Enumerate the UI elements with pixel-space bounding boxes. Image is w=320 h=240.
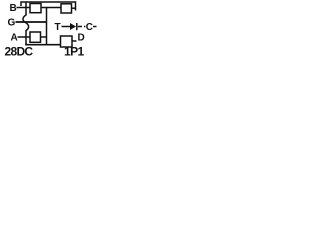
diode D1 (70, 23, 76, 30)
bottom bus wire (26, 44, 61, 45)
wire box4 to D (72, 40, 77, 42)
wire G to vertical junction (16, 21, 48, 23)
svg-text:D: D (78, 33, 85, 44)
wire after C (93, 26, 97, 28)
svg-text:T: T (55, 22, 61, 33)
wire A to box3 (18, 36, 31, 38)
svg-text:A: A (11, 33, 18, 44)
wire diode to C (78, 26, 82, 28)
svg-text:28DC: 28DC (5, 44, 34, 58)
top bus wire (21, 2, 76, 11)
box component (top-left square) (30, 4, 41, 13)
wire box1 to box2 (41, 7, 61, 9)
wire box3 to junction (41, 36, 48, 38)
svg-text:1P1: 1P1 (64, 44, 84, 58)
wire box2 right to top bus (72, 7, 77, 9)
vertical junction wire (46, 8, 48, 46)
box component (top-right square) (61, 4, 72, 13)
wire dot before C (84, 26, 85, 28)
svg-text:B: B (10, 3, 17, 14)
box component (bottom-left square) (30, 32, 41, 42)
svg-text:C: C (86, 22, 93, 33)
wire T to diode (62, 26, 71, 28)
wire B to box1 (17, 7, 31, 9)
diode cathode bar (76, 23, 78, 30)
box component (bottom-right square) (61, 36, 73, 47)
vertical wire with crossover squiggle (23, 2, 29, 45)
svg-text:G: G (8, 18, 16, 29)
